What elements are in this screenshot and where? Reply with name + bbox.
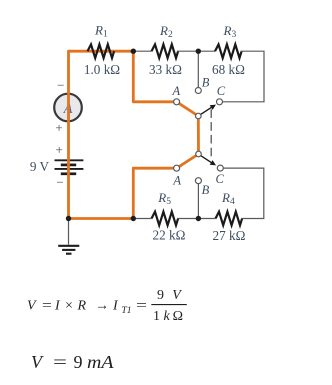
resistor R2 zigzag	[152, 44, 179, 58]
ground	[58, 246, 79, 254]
svg-text:A: A	[172, 173, 181, 187]
switch pivot bottom	[196, 151, 202, 157]
resistor R4 zigzag	[216, 212, 243, 226]
svg-text:9 V: 9 V	[30, 159, 50, 174]
svg-text:−: −	[56, 174, 63, 189]
svg-text:+: +	[55, 120, 62, 135]
svg-text:1: 1	[153, 309, 160, 324]
svg-text:+: +	[56, 142, 63, 157]
switch S1 top arm arrow to C	[200, 105, 217, 116]
svg-text:R4: R4	[221, 190, 235, 207]
svg-text:k: k	[164, 309, 171, 324]
svg-text:V: V	[27, 299, 37, 314]
svg-text:1.0 kΩ: 1.0 kΩ	[84, 62, 120, 77]
svg-text:→: →	[95, 299, 109, 314]
node junction dot after R1	[131, 49, 136, 54]
node junction dot battery-ground	[66, 216, 71, 221]
terminal B bottom	[195, 178, 201, 184]
wire orange highlighted current loop	[69, 51, 199, 218]
wire stub node B bottom	[197, 184, 199, 219]
resistor R5 zigzag	[152, 212, 179, 226]
svg-text:×: ×	[65, 299, 73, 314]
svg-text:=: =	[53, 352, 67, 372]
svg-text:B: B	[202, 76, 210, 90]
svg-text:T1: T1	[122, 306, 132, 316]
terminal C top	[217, 99, 223, 105]
svg-text:R: R	[77, 299, 87, 314]
terminal A top	[174, 99, 180, 105]
wire top-right loop R3 to C top	[223, 51, 265, 102]
wire bottom-right loop R4 to C bottom	[223, 168, 263, 218]
formula line 1: V = I x R -> IT1 = 9V/1kOhm	[27, 288, 187, 324]
switch pivot top	[196, 113, 202, 119]
resistor R3 zigzag	[215, 44, 242, 58]
svg-text:mA: mA	[87, 352, 115, 372]
svg-text:=: =	[136, 299, 147, 314]
switch S1 bottom arm arrow to C	[200, 155, 216, 166]
switch S1 ganged dashed link	[210, 109, 212, 158]
terminal A bottom	[174, 165, 180, 171]
svg-text:I: I	[112, 299, 119, 314]
svg-text:−: −	[57, 78, 64, 93]
svg-text:V: V	[172, 288, 182, 303]
svg-text:Ω: Ω	[173, 309, 183, 324]
node junction dot bottom left	[131, 216, 136, 221]
svg-text:B: B	[202, 183, 210, 197]
svg-text:C: C	[216, 172, 225, 186]
resistor R1 zigzag	[88, 44, 115, 58]
svg-text:=: =	[42, 299, 52, 314]
node junction dot bottom mid	[196, 216, 201, 221]
wire top gray from R1 node to R2	[133, 50, 151, 52]
svg-text:68 kΩ: 68 kΩ	[212, 62, 245, 77]
svg-text:R5: R5	[157, 190, 171, 207]
svg-text:9: 9	[157, 288, 164, 303]
wire stub node B top	[197, 51, 199, 87]
formula line 2: V = 9 mA	[31, 352, 115, 372]
svg-text:33 kΩ: 33 kΩ	[149, 62, 182, 77]
svg-text:9: 9	[74, 352, 83, 372]
wire gray R5 to mid node	[177, 218, 216, 220]
wire ground stub	[68, 219, 70, 245]
battery B1 (9 V) plates	[55, 160, 84, 174]
terminal C bottom	[217, 165, 223, 171]
svg-text:R2: R2	[159, 23, 173, 40]
ammeter U1	[54, 94, 82, 122]
wire bottom gray row: node to R5	[133, 218, 151, 220]
node junction dot R2-R3	[196, 49, 201, 54]
svg-text:R1: R1	[94, 22, 108, 39]
svg-text:C: C	[217, 84, 226, 98]
svg-text:R3: R3	[223, 23, 237, 40]
svg-text:I: I	[54, 299, 61, 314]
svg-text:27 kΩ: 27 kΩ	[213, 228, 246, 243]
terminal B top	[195, 88, 201, 94]
svg-text:V: V	[31, 352, 44, 372]
wire gray R2 to R3 node	[177, 50, 215, 52]
svg-text:A: A	[171, 84, 180, 98]
svg-text:22 kΩ: 22 kΩ	[153, 228, 186, 243]
